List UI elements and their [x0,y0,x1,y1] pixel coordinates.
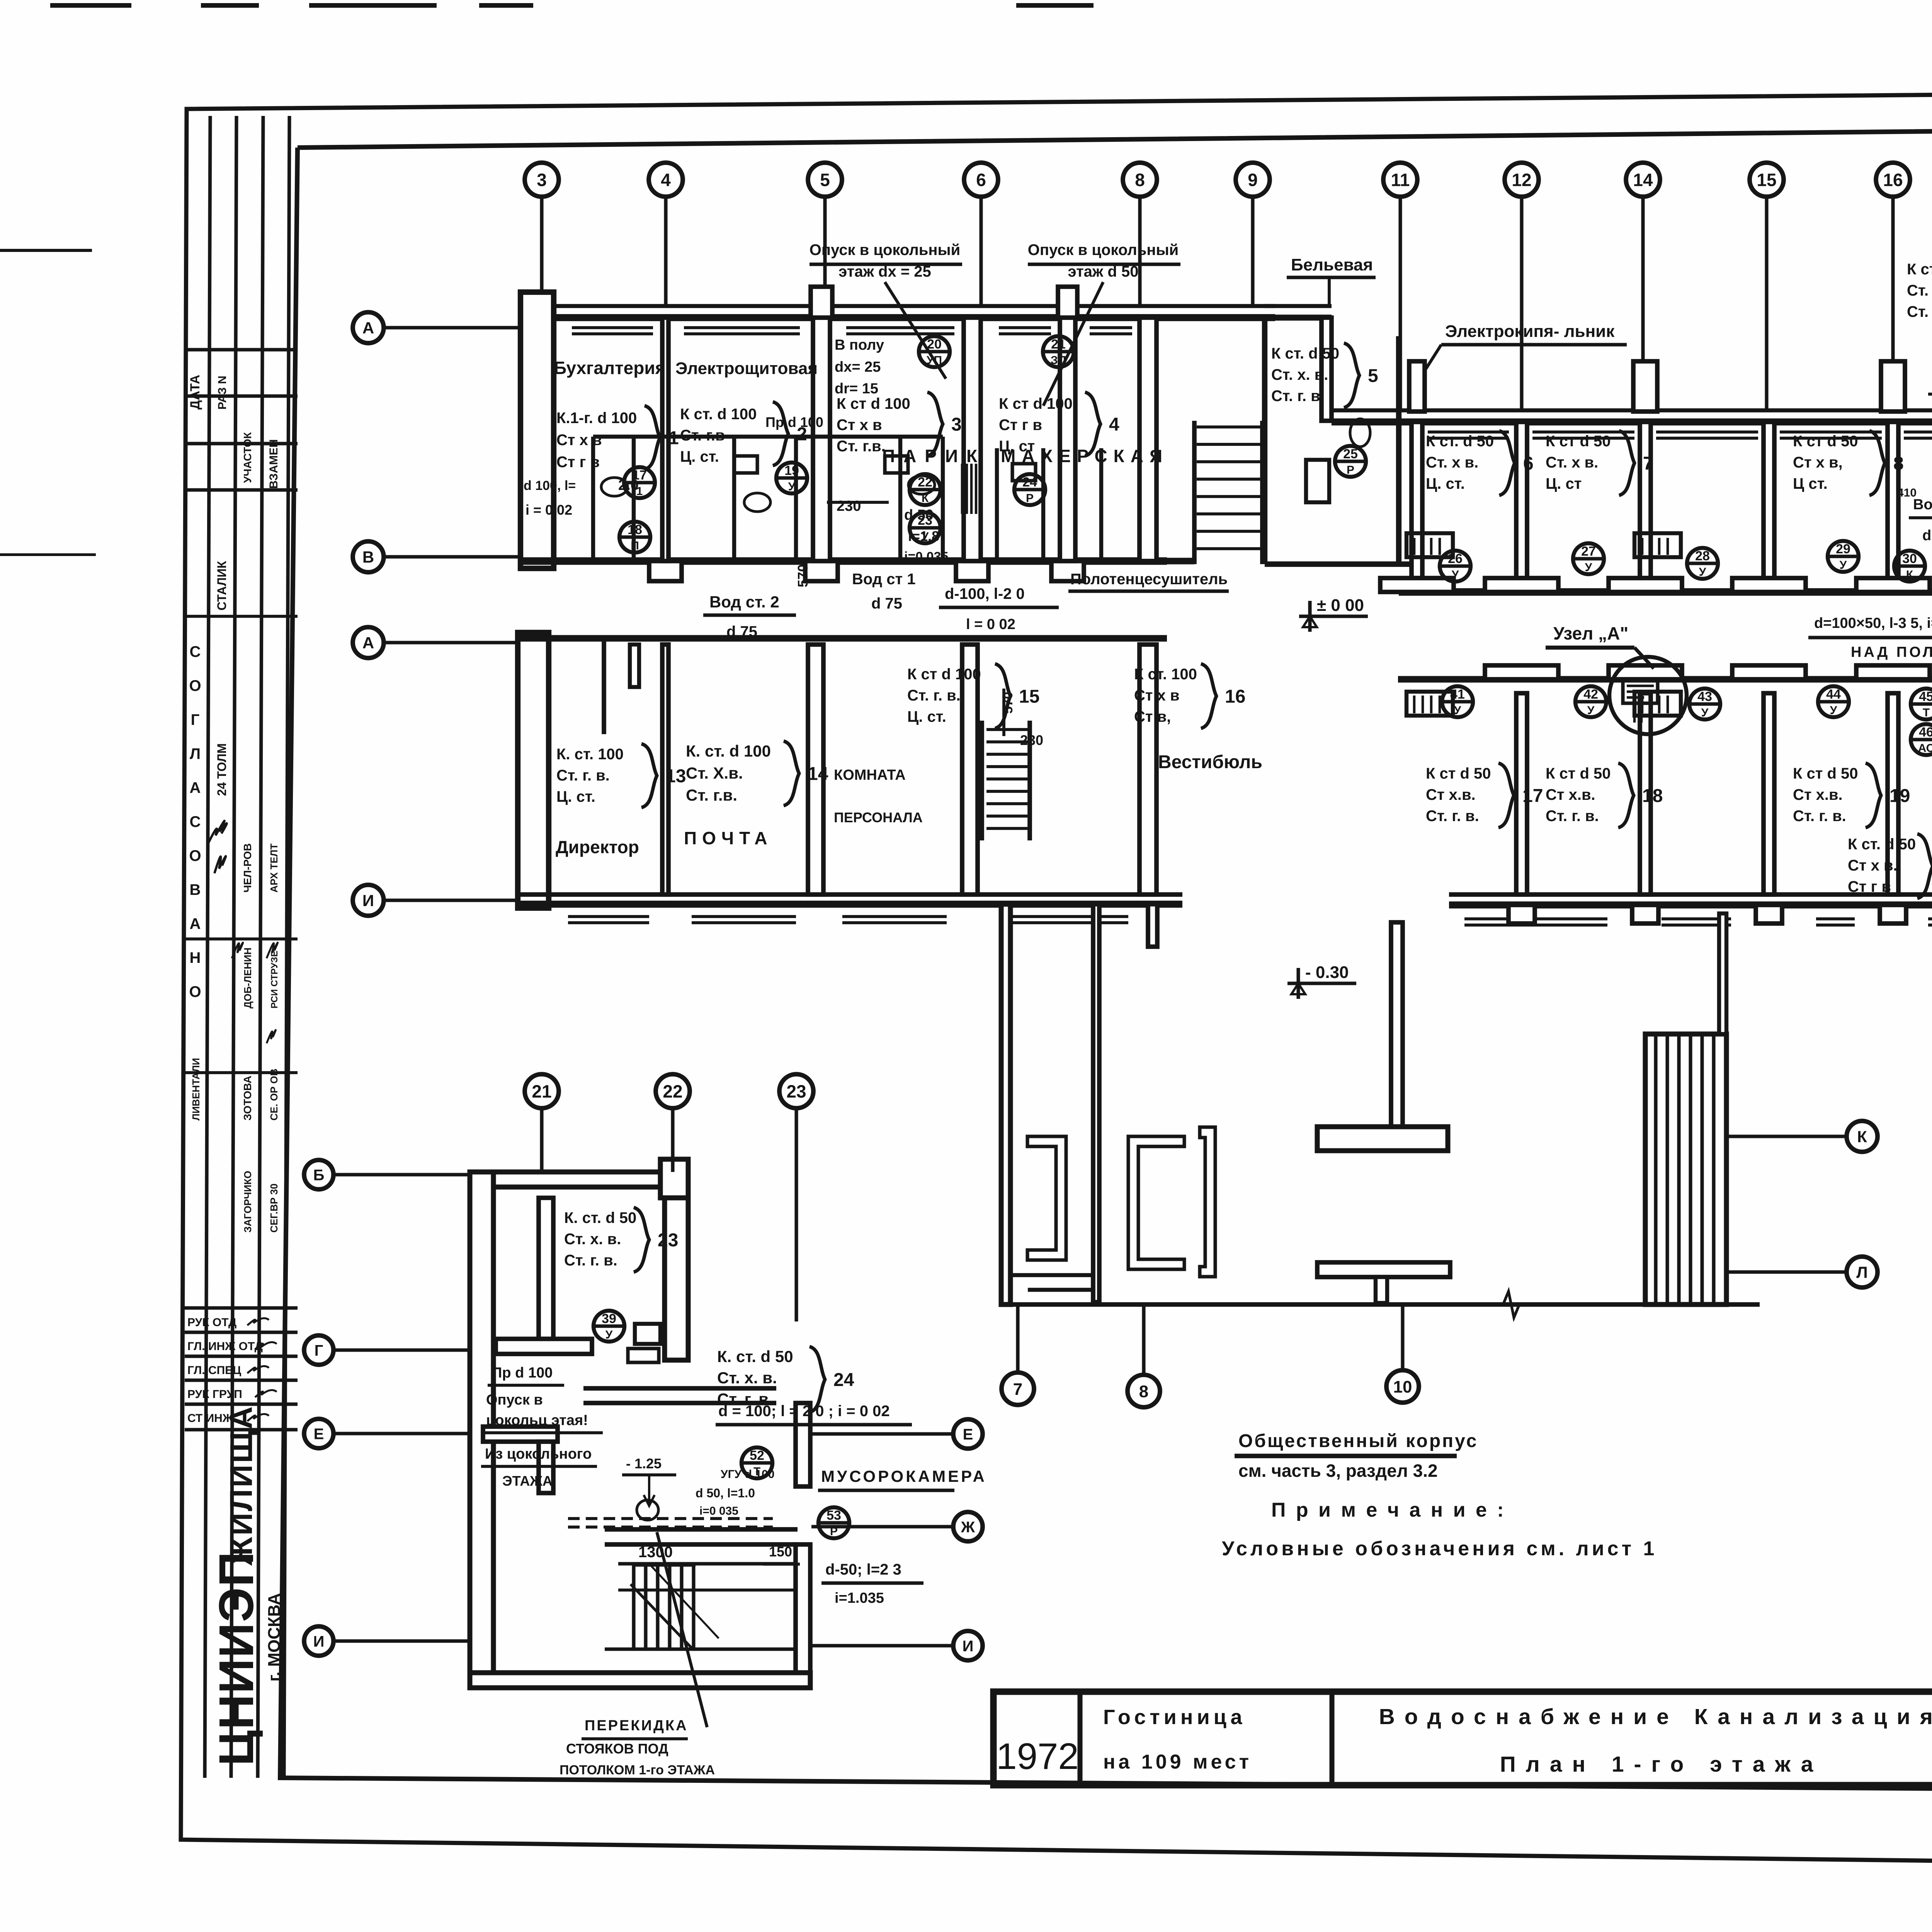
svg-text:230: 230 [837,498,861,514]
svg-text:П р и м е ч а н и е :: П р и м е ч а н и е : [1271,1499,1506,1521]
svg-text:РСИ СТРУЗЕ: РСИ СТРУЗЕ [269,951,280,1009]
svg-text:К ст d 50: К ст d 50 [1793,765,1858,782]
svg-text:ГЛ. ИНЖ ОТД: ГЛ. ИНЖ ОТД [187,1340,263,1353]
svg-text:- 0.30: - 0.30 [1305,963,1349,982]
svg-text:16: 16 [1883,170,1903,190]
svg-text:12: 12 [1512,170,1531,190]
svg-text:7: 7 [1643,453,1653,474]
svg-text:Р: Р [830,1525,838,1538]
svg-text:К ст d 50: К ст d 50 [1426,765,1491,782]
svg-text:Ст. г. в.: Ст. г. в. [1426,808,1479,825]
svg-text:ПЕРСОНАЛА: ПЕРСОНАЛА [834,810,923,825]
svg-text:И: И [362,891,374,910]
svg-text:22: 22 [918,475,932,490]
svg-text:17: 17 [1522,786,1543,806]
svg-text:Общественный корпус: Общественный корпус [1238,1431,1478,1451]
svg-text:19: 19 [784,463,799,478]
svg-text:Опуск в цокольный: Опуск в цокольный [1028,241,1179,259]
svg-text:27: 27 [1581,544,1596,559]
svg-text:В: В [362,548,374,566]
svg-text:13: 13 [665,766,686,786]
svg-text:Ж: Ж [961,1519,975,1536]
svg-text:d-100, l-2 0: d-100, l-2 0 [945,585,1025,602]
svg-text:Ст х в: Ст х в [1134,687,1180,704]
svg-text:4: 4 [661,170,671,190]
svg-text:d-50; l=2 3: d-50; l=2 3 [825,1561,901,1578]
svg-text:41: 41 [1450,687,1465,702]
svg-text:Ст. г. в.: Ст. г. в. [1546,808,1599,825]
svg-text:45: 45 [1919,689,1932,704]
svg-text:± 0 00: ± 0 00 [1317,596,1364,615]
svg-text:СТОЯКОВ ПОД: СТОЯКОВ ПОД [566,1741,668,1757]
svg-text:Ст в,: Ст в, [1134,708,1171,725]
svg-text:25: 25 [1343,447,1358,461]
svg-text:ЗАГОРЧИКО: ЗАГОРЧИКО [242,1171,253,1233]
svg-text:Ц. ст.: Ц. ст. [907,708,946,725]
svg-text:О: О [189,677,201,694]
svg-text:16: 16 [1225,686,1245,707]
svg-text:Ст х в: Ст х в [837,417,882,434]
svg-text:СЕГ.ВР 30: СЕГ.ВР 30 [268,1184,280,1233]
svg-text:ЧЕЛ-РОВ: ЧЕЛ-РОВ [241,843,253,893]
svg-text:К ст d 50: К ст d 50 [1793,433,1858,450]
svg-text:УГУ d 100: УГУ d 100 [721,1468,774,1481]
svg-text:d=100×50, l-3 5, i= 0.025: d=100×50, l-3 5, i= 0.025 [1814,615,1932,631]
svg-text:Ст. х в.: Ст. х в. [1426,454,1478,471]
svg-text:ПОЧТА: ПОЧТА [684,828,773,848]
svg-text:Р: Р [1347,464,1354,476]
svg-text:44: 44 [1826,687,1841,702]
svg-text:21: 21 [532,1082,551,1102]
svg-text:В: В [190,881,201,898]
svg-text:на 109 мест: на 109 мест [1103,1751,1252,1773]
svg-text:Вод ст. 2: Вод ст. 2 [709,593,779,611]
svg-text:ПЕРЕКИДКА: ПЕРЕКИДКА [585,1718,688,1734]
svg-text:К ст. d 100: К ст. d 100 [680,406,757,423]
svg-text:СЕ. ОР ОВ: СЕ. ОР ОВ [268,1069,280,1121]
svg-text:Ст. х. в.: Ст. х. в. [1271,366,1328,383]
svg-text:d 50, l=1.0: d 50, l=1.0 [696,1486,755,1500]
svg-text:Опуск в цокольный: Опуск в цокольный [810,241,960,259]
svg-text:У: У [788,480,796,493]
svg-text:570: 570 [795,564,811,587]
svg-text:29: 29 [1836,542,1850,556]
svg-text:1: 1 [636,485,643,498]
svg-text:Гостиница: Гостиница [1103,1706,1246,1729]
svg-text:К: К [1906,568,1913,581]
svg-text:Н: Н [190,949,201,966]
svg-text:Л: Л [190,745,201,762]
svg-text:К. ст. d 50: К. ст. d 50 [564,1209,636,1226]
svg-text:г. МОСКВА: г. МОСКВА [265,1593,284,1682]
svg-text:А: А [362,319,374,337]
svg-text:8: 8 [1139,1382,1148,1401]
svg-text:7: 7 [1013,1380,1022,1399]
svg-text:28: 28 [1695,549,1710,563]
svg-text:У: У [1699,566,1706,578]
svg-text:14: 14 [1633,170,1653,190]
svg-text:К. ст. 100: К. ст. 100 [556,746,624,763]
svg-text:11: 11 [1391,170,1410,190]
svg-text:1: 1 [668,428,679,448]
svg-text:УЧАСТОК: УЧАСТОК [241,432,253,483]
svg-text:Ц. ст.: Ц. ст. [556,788,595,805]
svg-text:dx= 25: dx= 25 [835,359,881,375]
svg-text:УП: УП [927,354,942,367]
svg-text:К ст. d 100: К ст. d 100 [1907,261,1932,278]
svg-text:К: К [922,492,929,505]
svg-text:Ст. х в.: Ст. х в. [1546,454,1598,471]
svg-text:24: 24 [833,1370,854,1390]
svg-text:9: 9 [1248,170,1258,190]
svg-text:46: 46 [1919,725,1932,740]
svg-text:К ст. d 50: К ст. d 50 [1271,345,1339,362]
svg-text:Полотенцесушитель: Полотенцесушитель [1070,571,1228,588]
svg-text:Ст. г.в.: Ст. г.в. [686,786,737,804]
svg-text:Е: Е [963,1426,973,1443]
svg-text:Ст. г. в.: Ст. г. в. [907,687,961,704]
svg-text:Ст. г. в.: Ст. г. в. [1793,808,1846,825]
svg-text:Ц ст.: Ц ст. [1793,475,1828,492]
svg-text:3: 3 [537,170,547,190]
svg-text:РУК ОТД: РУК ОТД [187,1316,236,1329]
svg-text:i=1.035: i=1.035 [835,1590,884,1606]
svg-text:d 100, l=: d 100, l= [524,478,576,493]
svg-text:d 75: d 75 [726,623,757,640]
svg-text:17: 17 [632,468,647,483]
svg-text:Электрокипя- льник: Электрокипя- льник [1445,322,1615,341]
svg-text:Ст х в.: Ст х в. [1848,857,1898,874]
svg-text:Ст. х. в.: Ст. х. в. [1907,282,1932,299]
svg-text:У: У [1585,561,1592,574]
svg-text:К. ст. d 100: К. ст. d 100 [686,742,771,760]
svg-text:План 1-го этажа: План 1-го этажа [1500,1752,1823,1777]
svg-text:ПОТОЛКОМ 1-го ЭТАЖА: ПОТОЛКОМ 1-го ЭТАЖА [560,1763,715,1777]
svg-text:Опуск в: Опуск в [486,1392,543,1408]
svg-text:К ст. 100: К ст. 100 [1134,666,1197,683]
svg-text:У: У [922,530,929,543]
svg-text:У: У [1587,704,1595,717]
svg-text:l = 0 02: l = 0 02 [966,616,1015,633]
svg-text:52: 52 [750,1448,764,1463]
svg-text:1300: 1300 [638,1544,673,1561]
svg-text:Ст х в,: Ст х в, [1793,454,1843,471]
svg-text:5: 5 [820,170,830,190]
svg-text:ЛИВЕНТАЛИ: ЛИВЕНТАЛИ [190,1058,202,1121]
svg-text:Ц. ст.: Ц. ст. [680,448,719,465]
svg-text:15: 15 [1019,686,1039,707]
svg-text:АРХ ТЕЛТ: АРХ ТЕЛТ [268,844,280,893]
svg-text:А: А [190,779,201,796]
svg-text:Из цокольного: Из цокольного [485,1446,592,1462]
svg-text:ВЗАМЕН: ВЗАМЕН [267,439,280,489]
svg-text:О: О [189,983,201,1000]
svg-text:15: 15 [1757,170,1776,190]
svg-text:Водоснабжение Канализация Водо: Водоснабжение Канализация Водосток [1379,1704,1932,1729]
svg-text:Л: Л [1856,1263,1867,1281]
svg-text:МУСОРОКАМЕРА: МУСОРОКАМЕРА [821,1467,987,1485]
svg-text:см. часть 3, раздел 3.2: см. часть 3, раздел 3.2 [1238,1461,1438,1481]
svg-text:19: 19 [1889,786,1910,806]
svg-text:6: 6 [976,170,986,190]
svg-text:К ст d 100: К ст d 100 [837,395,910,412]
svg-text:i = 0.02: i = 0.02 [526,502,572,518]
svg-text:24: 24 [1022,475,1037,490]
svg-text:d 75: d 75 [871,595,902,612]
svg-text:4: 4 [1109,414,1119,435]
svg-text:23: 23 [918,513,932,528]
svg-text:39: 39 [602,1311,616,1326]
svg-text:Условные обозначения см.: Условные обозначения см. лист 1 [1222,1537,1657,1560]
svg-text:К.1-г. d 100: К.1-г. d 100 [556,410,637,427]
svg-text:В полу: В полу [835,337,884,353]
svg-text:Р: Р [1026,492,1034,505]
svg-text:У: У [605,1328,613,1341]
svg-text:ЗП: ЗП [1051,354,1066,367]
svg-text:И: И [313,1633,325,1650]
svg-text:К ст d 50: К ст d 50 [1546,433,1611,450]
svg-text:5: 5 [1368,366,1378,386]
svg-text:ДОБ-ЛЕНИН: ДОБ-ЛЕНИН [242,947,253,1009]
svg-text:6: 6 [1523,453,1534,474]
svg-text:8: 8 [1893,453,1904,474]
svg-text:Ст. г. в.: Ст. г. в. [1271,388,1325,405]
svg-text:ЖИЛИЩА: ЖИЛИЩА [224,1405,259,1566]
svg-text:РАЗ N: РАЗ N [216,376,229,410]
svg-text:Ст. г.в.: Ст. г.в. [837,438,886,455]
svg-text:А: А [190,915,201,932]
svg-text:dr= 15: dr= 15 [835,381,878,397]
svg-text:d 75: d 75 [1922,527,1932,544]
svg-text:К. ст. d 50: К. ст. d 50 [717,1347,793,1366]
svg-text:К ст. d 50: К ст. d 50 [1848,836,1916,853]
svg-text:ДАТА: ДАТА [188,375,202,410]
svg-text:410: 410 [1897,486,1917,499]
svg-text:- 1.25: - 1.25 [626,1456,662,1471]
svg-text:21: 21 [1051,337,1066,352]
svg-text:СТАЛИК: СТАЛИК [215,561,229,611]
svg-text:У: У [1830,704,1837,717]
svg-text:30: 30 [1902,551,1917,566]
svg-text:Ст. г.в: Ст. г.в [680,427,725,444]
svg-text:18: 18 [628,522,642,537]
svg-text:ПАРИК: ПАРИК [882,446,986,466]
svg-text:К ст d 100: К ст d 100 [907,666,981,683]
svg-text:53: 53 [827,1508,841,1523]
svg-text:42: 42 [1583,687,1598,702]
svg-text:К ст. d 50: К ст. d 50 [1426,433,1494,450]
svg-text:i=0 035: i=0 035 [699,1505,738,1517]
svg-text:26: 26 [1448,551,1463,566]
svg-text:Бельевая: Бельевая [1291,255,1373,274]
svg-text:Ст х.в.: Ст х.в. [1426,786,1476,803]
svg-text:1972: 1972 [996,1736,1079,1777]
svg-text:РУК ГРУП: РУК ГРУП [187,1388,242,1401]
svg-text:Ст. Х.в.: Ст. Х.в. [686,764,743,782]
svg-text:d = 100; l = 2 0 ; i = 0 02: d = 100; l = 2 0 ; i = 0 02 [718,1403,890,1420]
svg-text:ЗОТОВА: ЗОТОВА [241,1076,253,1121]
svg-text:Ст г в: Ст г в [556,454,600,471]
svg-text:Ст г в: Ст г в [999,417,1042,434]
svg-text:П: П [631,539,639,552]
svg-text:КОМНАТА: КОМНАТА [834,767,906,783]
svg-text:Ст х.в.: Ст х.в. [1793,786,1843,803]
svg-text:18: 18 [1642,786,1663,806]
svg-text:24 ТОЛМ: 24 ТОЛМ [215,743,229,796]
svg-text:К: К [1857,1128,1867,1146]
svg-text:Б: Б [313,1167,325,1184]
svg-text:К ст d 50: К ст d 50 [1546,765,1611,782]
svg-text:Г: Г [315,1342,323,1359]
svg-text:Вестибюль: Вестибюль [1158,752,1262,772]
svg-text:Вод ст 1: Вод ст 1 [852,571,916,588]
svg-text:Пр d 100: Пр d 100 [492,1365,553,1381]
svg-text:10: 10 [1393,1378,1412,1396]
svg-text:Ст х в: Ст х в [556,432,602,449]
svg-text:Электрощитовая: Электрощитовая [675,359,818,378]
svg-text:43: 43 [1697,689,1712,704]
svg-text:АС: АС [1918,742,1932,755]
svg-text:Ст. х. в.: Ст. х. в. [717,1369,777,1387]
svg-text:ЦНИИЭП: ЦНИИЭП [209,1551,264,1766]
svg-text:НАД ПОЛОМ: НАД ПОЛОМ [1851,644,1932,660]
svg-text:20: 20 [927,337,942,352]
svg-text:ГЛ. СПЕЦ: ГЛ. СПЕЦ [187,1364,241,1377]
svg-text:Директор: Директор [556,837,639,857]
svg-text:Пр d 100: Пр d 100 [765,414,823,430]
svg-text:Узел „А": Узел „А" [1553,623,1628,643]
svg-text:ЭТАЖА: ЭТАЖА [502,1473,553,1489]
svg-text:8: 8 [1135,170,1145,190]
svg-text:Ст. х. в.: Ст. х. в. [564,1231,621,1248]
svg-text:Т: Т [1923,706,1930,719]
svg-text:У: У [1701,706,1709,719]
svg-text:С: С [190,813,201,830]
svg-text:Ст г в: Ст г в [1848,878,1891,895]
svg-text:Бухгалтерия: Бухгалтерия [554,358,665,378]
svg-text:Е: Е [314,1425,324,1442]
svg-text:О: О [189,847,201,864]
svg-text:Ц. ст.: Ц. ст. [1426,475,1465,492]
svg-text:И: И [963,1638,974,1655]
svg-text:С: С [190,643,201,660]
svg-text:23: 23 [658,1230,678,1250]
svg-text:3: 3 [951,414,962,435]
svg-text:К ст d 100: К ст d 100 [999,395,1073,412]
svg-text:цокольц этая!: цокольц этая! [486,1412,588,1429]
svg-text:Ст. г. в.: Ст. г. в. [1907,303,1932,320]
svg-text:МАХЕРСКАЯ: МАХЕРСКАЯ [1001,446,1168,466]
svg-text:14: 14 [808,764,828,784]
svg-text:Ст. г. в.: Ст. г. в. [564,1252,617,1269]
svg-text:150: 150 [769,1544,792,1560]
svg-text:Г: Г [191,711,200,728]
svg-text:Ц. ст: Ц. ст [1546,475,1582,492]
svg-text:i=0 035: i=0 035 [904,549,948,564]
svg-text:У: У [1454,704,1461,717]
svg-text:23: 23 [786,1082,806,1102]
svg-text:У: У [1452,568,1459,581]
svg-text:У: У [1840,559,1847,571]
svg-text:Ст. г. в.: Ст. г. в. [556,767,610,784]
svg-text:Ст х.в.: Ст х.в. [1546,786,1595,803]
svg-text:22: 22 [663,1082,682,1102]
svg-text:А: А [362,634,374,652]
